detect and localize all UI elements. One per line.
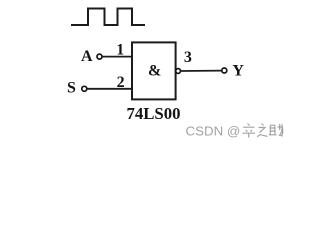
square-wave clock symbol: [71, 9, 145, 26]
watermark glyph 辛: [243, 124, 256, 138]
wire A to pin 1: [102, 56, 132, 58]
inversion bubble on output: [176, 69, 181, 74]
watermark glyph 助: [269, 124, 283, 136]
watermark glyph 之: [257, 124, 267, 137]
wire S to pin 2: [87, 88, 132, 90]
svg-text:S: S: [67, 80, 76, 97]
output terminal Y: [222, 68, 227, 73]
svg-text:74LS00: 74LS00: [126, 104, 180, 123]
NAND gate U1 74LS00 body: [132, 42, 176, 99]
svg-text:3: 3: [184, 49, 192, 66]
input terminal S: [82, 86, 87, 91]
svg-text:A: A: [81, 48, 93, 65]
svg-text:CSDN @: CSDN @: [186, 123, 241, 138]
svg-text:2: 2: [117, 74, 125, 91]
input terminal A: [97, 54, 102, 59]
svg-text:&: &: [148, 63, 161, 80]
wire pin 3 to output terminal: [181, 70, 222, 72]
svg-text:1: 1: [116, 42, 124, 59]
svg-text:Y: Y: [232, 63, 244, 80]
